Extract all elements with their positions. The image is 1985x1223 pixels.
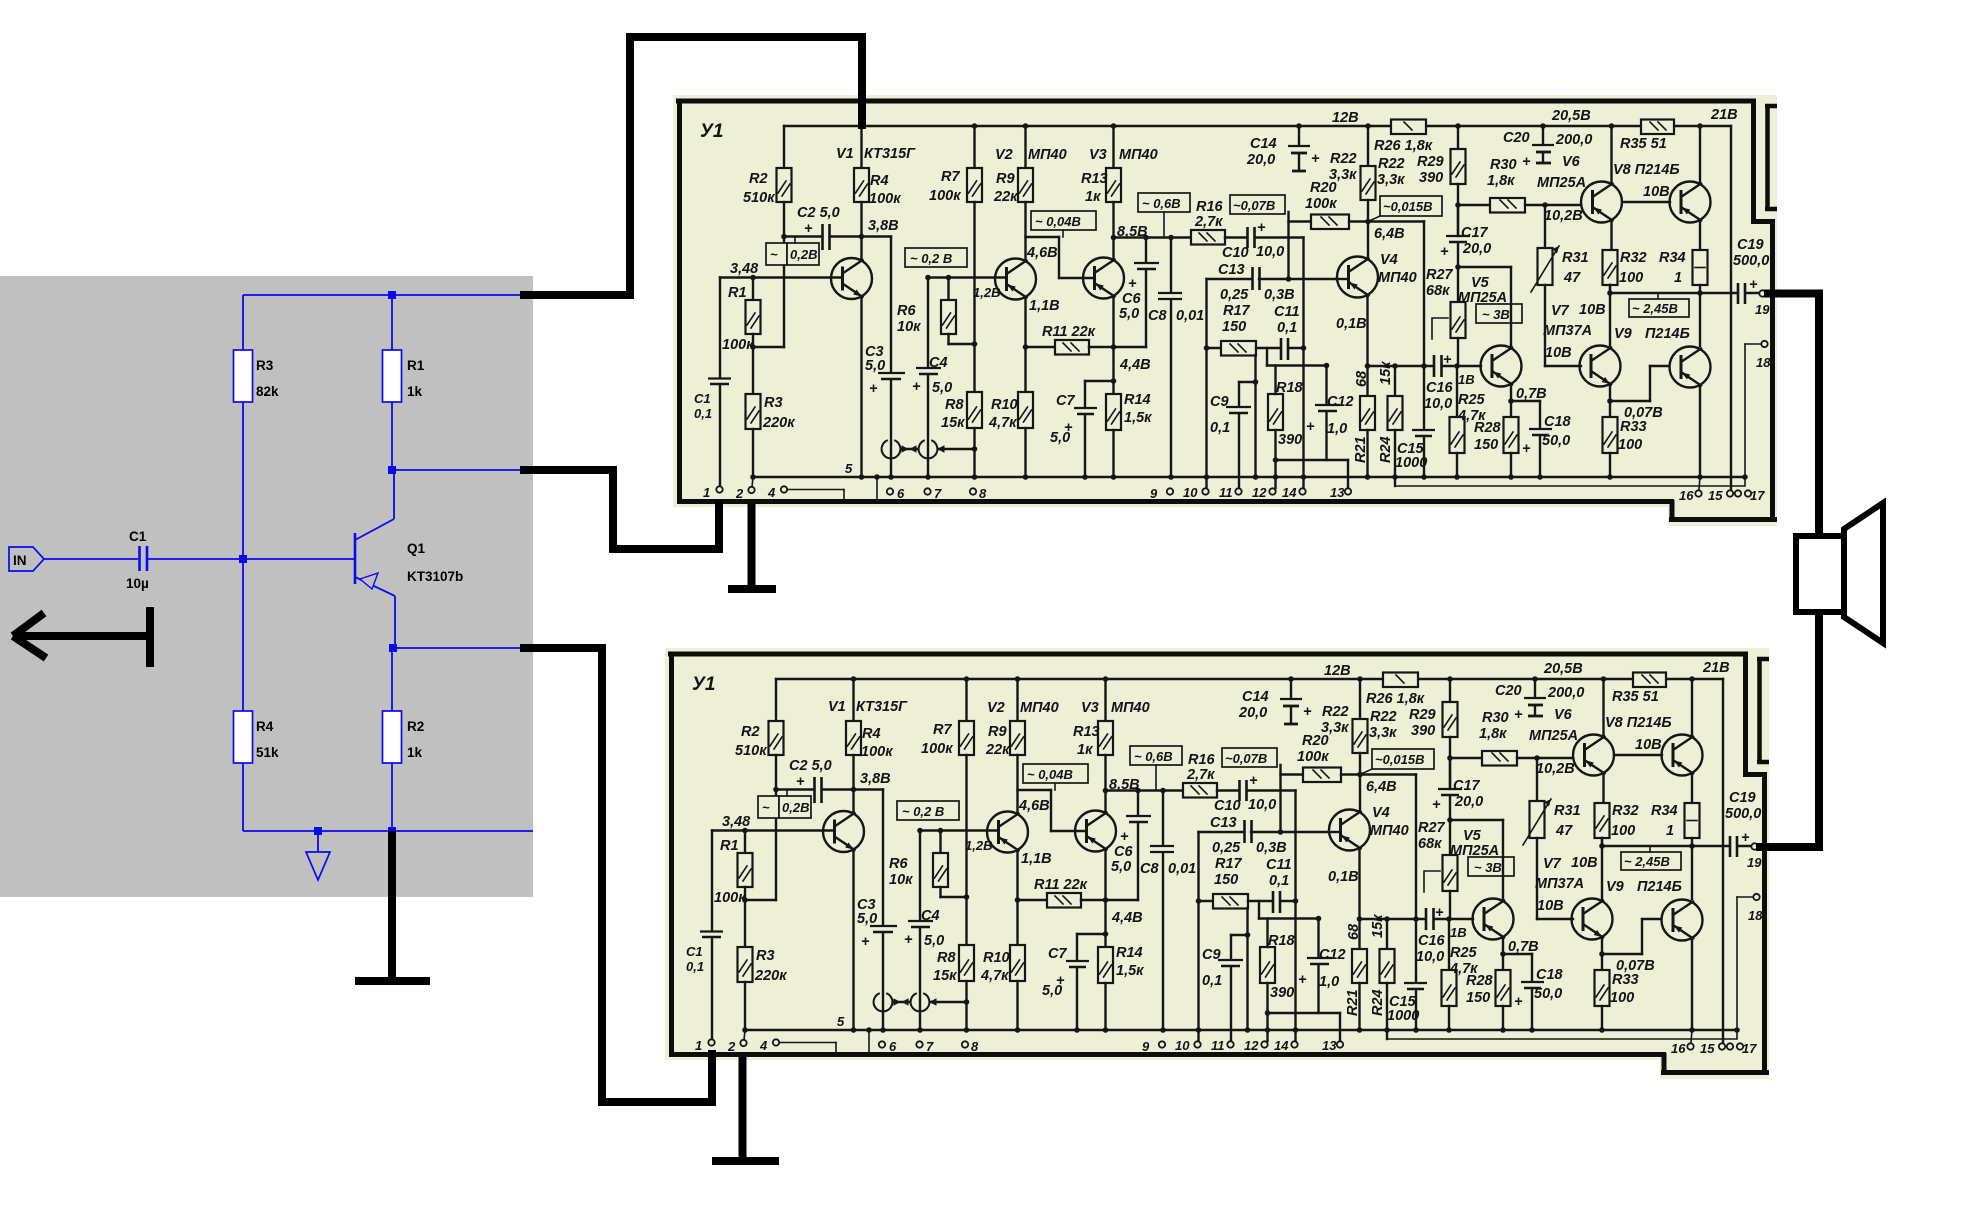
svg-text:V7: V7 [1551, 303, 1570, 319]
wire W2: collector row to top amp input pin 1 [520, 466, 723, 553]
node bottom rail right [388, 827, 396, 835]
svg-text:МП40: МП40 [1119, 147, 1158, 163]
svg-text:100к: 100к [722, 337, 754, 353]
svg-text:20,5В: 20,5В [1551, 108, 1591, 124]
capacitor C10 10,0 [1222, 220, 1304, 261]
svg-text:V8 П214Б: V8 П214Б [1613, 162, 1680, 178]
capacitor C9 0,1 [1210, 382, 1251, 488]
svg-text:6,4В: 6,4В [1374, 226, 1405, 242]
resistor R26 1,8k on rail [1374, 120, 1433, 155]
svg-text:0,1: 0,1 [694, 406, 712, 421]
svg-text:510к: 510к [743, 190, 775, 206]
svg-text:5,0: 5,0 [932, 380, 952, 396]
pin 19 [1755, 290, 1770, 317]
svg-text:0,1: 0,1 [1210, 420, 1230, 436]
svg-text:10В: 10В [1579, 302, 1606, 318]
capacitor C12 1,0 [1276, 366, 1354, 461]
transistor V1 KT315G [831, 146, 916, 480]
wire: input to C1 [44, 558, 138, 560]
input port IN [9, 547, 44, 571]
svg-text:22к: 22к [993, 189, 1018, 205]
capacitor C7 5,0 [1050, 381, 1114, 480]
svg-text:390: 390 [1419, 170, 1443, 186]
svg-text:4,7к: 4,7к [988, 415, 1017, 431]
svg-text:R6: R6 [897, 303, 916, 319]
svg-text:10: 10 [1183, 485, 1198, 500]
resistor R21 68 [1353, 366, 1375, 480]
svg-text:10,0: 10,0 [1424, 396, 1452, 412]
svg-text:R13: R13 [1081, 171, 1108, 187]
wire B: C13 row to V4 base [1207, 276, 1337, 282]
svg-text:+: + [1128, 276, 1137, 292]
amplifier module U1 (top channel) [673, 95, 1777, 526]
svg-text:100: 100 [1618, 437, 1642, 453]
svg-text:1,2В: 1,2В [973, 285, 1000, 300]
black annotation arrow [13, 607, 150, 667]
svg-text:100к: 100к [1305, 196, 1337, 212]
svg-text:3,3к: 3,3к [1329, 167, 1357, 183]
svg-text:C16: C16 [1426, 380, 1454, 396]
svg-text:R7: R7 [941, 169, 960, 185]
wire W1: left circuit top rail to top amp supply [520, 33, 866, 299]
svg-text:15к: 15к [941, 415, 965, 431]
resistor R3 82k [234, 295, 280, 559]
svg-text:16: 16 [1679, 488, 1694, 503]
svg-text:10µ: 10µ [126, 576, 149, 591]
svg-text:R4: R4 [256, 719, 274, 734]
svg-text:C13: C13 [1218, 262, 1245, 278]
voltage callout 0,2V at V1 base [766, 237, 819, 265]
svg-text:Q1: Q1 [407, 541, 426, 556]
svg-text:1: 1 [1674, 270, 1682, 286]
svg-text:V4: V4 [1380, 252, 1398, 268]
svg-text:МП25А: МП25А [1458, 290, 1507, 306]
svg-text:R14: R14 [1124, 392, 1151, 408]
pin 14 [1282, 485, 1306, 500]
svg-text:0,1: 0,1 [1277, 320, 1297, 336]
pin 8 [970, 486, 987, 501]
svg-text:2,7к: 2,7к [1194, 214, 1223, 230]
capacitor C16 10,0 [1424, 352, 1481, 412]
svg-text:3,8В: 3,8В [868, 218, 899, 234]
svg-text:V6: V6 [1562, 154, 1581, 170]
svg-text:10к: 10к [897, 319, 921, 335]
svg-text:6: 6 [897, 486, 905, 501]
svg-text:10,2В: 10,2В [1544, 208, 1583, 224]
svg-text:R29: R29 [1417, 154, 1444, 170]
svg-text:R30: R30 [1490, 157, 1517, 173]
svg-text:R2: R2 [749, 171, 768, 187]
transistor V5 MP25A [1458, 267, 1522, 417]
svg-text:C1: C1 [129, 529, 147, 544]
svg-text:R32: R32 [1620, 250, 1647, 266]
resistor R8 15k [941, 392, 982, 480]
svg-text:+: + [1443, 352, 1452, 368]
pin 11 [1219, 485, 1242, 500]
svg-text:12В: 12В [1332, 110, 1359, 126]
resistor R13 1k [1081, 123, 1121, 259]
svg-text:V9: V9 [1614, 326, 1632, 342]
svg-text:0,3В: 0,3В [1264, 287, 1295, 303]
svg-text:~ 3В: ~ 3В [1482, 307, 1510, 322]
svg-text:18: 18 [1756, 355, 1771, 370]
svg-text:0,25: 0,25 [1220, 287, 1249, 303]
svg-text:68к: 68к [1426, 283, 1450, 299]
svg-text:68: 68 [1354, 370, 1370, 387]
svg-text:R1: R1 [728, 285, 747, 301]
amplifier module U1 (bottom channel), duplicate of the top module [665, 648, 1769, 1079]
node at collector [388, 466, 396, 474]
svg-text:C2 5,0: C2 5,0 [797, 205, 840, 221]
loudspeaker symbol [1796, 503, 1883, 643]
svg-text:+: + [1311, 151, 1320, 167]
svg-text:C9: C9 [1210, 394, 1229, 410]
resistor R20 100k (horizontal) [1289, 180, 1425, 229]
capacitor C4 5,0 [912, 275, 952, 480]
feedback column to C15 [1423, 222, 1425, 367]
wire: base wire [148, 558, 355, 560]
svg-text:C18: C18 [1544, 414, 1572, 430]
voltage callout ~0,015V [1368, 196, 1442, 222]
V4 emitter row to C16 [1368, 363, 1434, 369]
svg-text:R4: R4 [870, 173, 889, 189]
module border outline [676, 99, 1777, 521]
svg-text:0,1В: 0,1В [1336, 316, 1367, 332]
svg-text:3,48: 3,48 [730, 261, 759, 277]
svg-text:~ 0,04В: ~ 0,04В [1035, 214, 1081, 229]
voltage callout ~0,2V at V2 base [905, 248, 967, 267]
column to pin 14 [1301, 238, 1307, 489]
capacitor C19 500,0 [1733, 237, 1769, 304]
pin 16 [1679, 477, 1702, 503]
resistor R3 220k [746, 347, 796, 480]
resistor R29 390 [1417, 123, 1466, 236]
svg-text:R35 51: R35 51 [1620, 136, 1667, 152]
resistor R1 100k [722, 275, 784, 353]
capacitor C14 20,0 [1246, 123, 1320, 171]
capacitor C11 0,1 [1274, 304, 1306, 360]
transistor V8 P214B [1613, 123, 1711, 250]
svg-text:C7: C7 [1056, 393, 1075, 409]
svg-text:500,0: 500,0 [1733, 253, 1769, 269]
resistor R32 100 [1603, 250, 1647, 293]
transistor Q1 KT3107b [355, 470, 463, 648]
svg-text:100к: 100к [929, 188, 961, 204]
svg-text:10В: 10В [1643, 184, 1670, 200]
capacitor C1 10u [126, 529, 149, 591]
svg-text:10,0: 10,0 [1256, 244, 1284, 260]
svg-text:5: 5 [845, 461, 853, 476]
svg-text:1k: 1k [407, 384, 423, 399]
transistor V9 P214B [1610, 293, 1711, 480]
svg-text:C11: C11 [1274, 304, 1300, 320]
resistor R14 1,5k [1106, 392, 1152, 480]
pin 13 [1330, 460, 1351, 500]
svg-text:4: 4 [767, 485, 776, 500]
resistor R1 1k [383, 295, 425, 470]
node 8,5V [1111, 224, 1148, 240]
wire B' row under C11 [1267, 348, 1329, 368]
svg-text:C20: C20 [1503, 130, 1530, 146]
svg-text:МП40: МП40 [1378, 270, 1417, 286]
capacitor C8 0,01 [1148, 238, 1204, 480]
capacitor C15 1000 [1395, 366, 1435, 480]
resistor R2 1k [383, 648, 425, 831]
svg-text:R22: R22 [1330, 151, 1357, 167]
pin 2 [735, 477, 755, 501]
svg-text:П214Б: П214Б [1645, 326, 1690, 342]
resistor R7 100k [929, 123, 982, 392]
svg-text:R18: R18 [1276, 380, 1304, 396]
capacitor C1 0,1 [694, 278, 731, 487]
svg-text:R16: R16 [1196, 199, 1224, 215]
svg-text:~0,015В: ~0,015В [1383, 199, 1433, 214]
transistor V6 MP25A [1537, 123, 1622, 250]
svg-text:7: 7 [934, 486, 942, 501]
svg-text:11: 11 [1219, 485, 1233, 500]
svg-text:+: + [1749, 277, 1758, 293]
svg-text:13: 13 [1330, 485, 1345, 500]
wire: bottom rail [243, 830, 533, 832]
svg-text:100: 100 [1619, 270, 1643, 286]
svg-text:R27: R27 [1426, 267, 1454, 283]
capacitor C17 20,0 [1440, 205, 1491, 270]
resistor R18 390 [1268, 366, 1304, 489]
voltage callout ~2,45V [1629, 293, 1689, 317]
capacitor C6 5,0 [1114, 235, 1160, 347]
link from wire A to wire B [1287, 212, 1289, 279]
pin 9 [1150, 486, 1173, 501]
svg-text:R22: R22 [1378, 156, 1405, 172]
variable resistor R31 47 [1531, 205, 1589, 366]
transistor V3 MP40 [1083, 147, 1158, 299]
resistor R11 22k (horizontal) [1026, 324, 1117, 355]
wire: emitter row [393, 647, 533, 649]
resistor R4 100k [854, 123, 901, 236]
svg-text:1k: 1k [407, 745, 423, 760]
svg-text:+: + [1522, 441, 1531, 457]
pin row wire 13-17 [1395, 485, 1744, 487]
svg-text:3,3к: 3,3к [1377, 172, 1405, 188]
svg-text:390: 390 [1278, 432, 1302, 448]
pin 4 and its trace [767, 485, 844, 501]
resistor R16 2,7k (horizontal) [1191, 199, 1247, 245]
svg-text:+: + [1306, 419, 1315, 435]
chassis stub near pin 6 [874, 474, 880, 501]
V3 emitter column, node 4,4V [1111, 298, 1151, 395]
svg-text:2: 2 [735, 486, 744, 501]
resistor R34 1 [1659, 250, 1708, 293]
svg-text:~ 0,2 В: ~ 0,2 В [910, 251, 952, 266]
svg-text:R26 1,8к: R26 1,8к [1374, 138, 1433, 154]
svg-text:12: 12 [1252, 485, 1267, 500]
svg-text:R3: R3 [764, 395, 783, 411]
svg-text:C6: C6 [1122, 291, 1141, 307]
node A wire (R2/C2/R1 junction) [781, 234, 821, 347]
svg-text:~0,07В: ~0,07В [1233, 198, 1275, 213]
voltage callout ~0,04V [1031, 211, 1096, 237]
node on top rail at R1 [388, 291, 396, 299]
resistor R6 10k [897, 275, 977, 347]
svg-text:1,1В: 1,1В [1029, 298, 1060, 314]
svg-text:5,0: 5,0 [865, 358, 885, 374]
svg-text:1: 1 [703, 485, 710, 500]
pin 6 [887, 486, 905, 501]
output wire to pin 19 [1607, 290, 1737, 296]
svg-text:20,0: 20,0 [1246, 152, 1275, 168]
svg-text:R9: R9 [996, 171, 1015, 187]
node bottom rail left [314, 827, 322, 835]
svg-text:~ 2,45В: ~ 2,45В [1632, 301, 1678, 316]
svg-text:IN: IN [13, 553, 27, 568]
resistor R25 4,7k [1450, 366, 1487, 480]
wire W3: top amp pin 2 to ground [728, 504, 776, 589]
svg-text:17: 17 [1750, 488, 1765, 503]
svg-text:C4: C4 [929, 355, 948, 371]
wire W4: emitter row to bottom amp input pin 1 [520, 644, 716, 1106]
svg-text:9: 9 [1150, 486, 1158, 501]
svg-text:0,01: 0,01 [1176, 308, 1204, 324]
blue ground symbol [306, 835, 330, 880]
capacitor C13 [1218, 262, 1260, 290]
svg-text:+: + [1440, 244, 1449, 260]
resistor R4 51k [234, 559, 280, 831]
svg-text:~: ~ [770, 247, 778, 262]
svg-text:R33: R33 [1620, 419, 1647, 435]
svg-text:1,0: 1,0 [1327, 421, 1347, 437]
vertical column to pin 10 [1204, 279, 1210, 488]
svg-text:У1: У1 [700, 121, 723, 142]
pin 17 pair [1735, 488, 1765, 503]
scanned module background [673, 95, 1777, 507]
svg-text:R25: R25 [1458, 392, 1486, 408]
svg-text:МП37А: МП37А [1543, 323, 1592, 339]
schematic editor gray panel [0, 276, 533, 897]
resistor R35 51 on rail [1620, 120, 1674, 153]
wire A: 8,5V node row with R16 and C10 [1114, 235, 1192, 241]
svg-text:5,0: 5,0 [1050, 430, 1070, 446]
svg-text:KT3107b: KT3107b [407, 569, 463, 584]
svg-text:C8: C8 [1148, 308, 1167, 324]
transistor V4 MP40 [1336, 252, 1417, 369]
svg-text:МП25А: МП25А [1537, 175, 1586, 191]
resistor R28 150 [1474, 417, 1519, 480]
resistor R22 3,3k [1329, 123, 1405, 257]
capacitor C18 50,0 [1511, 401, 1572, 480]
svg-text:51k: 51k [256, 745, 279, 760]
svg-text:R28: R28 [1474, 420, 1502, 436]
top supply rail 12V [784, 125, 1731, 127]
svg-text:15: 15 [1708, 488, 1723, 503]
voltage callout ~0,6V [1138, 193, 1190, 237]
svg-text:R3: R3 [256, 358, 274, 373]
voltage callout ~3V [1476, 304, 1522, 323]
svg-text:220к: 220к [762, 415, 795, 431]
svg-text:150: 150 [1474, 437, 1498, 453]
svg-text:+: + [1522, 154, 1531, 170]
svg-text:+: + [869, 381, 878, 397]
svg-text:100к: 100к [869, 191, 901, 207]
svg-text:15к: 15к [1378, 361, 1394, 385]
svg-text:R2: R2 [407, 719, 424, 734]
pin 10 [1183, 485, 1209, 500]
svg-text:C14: C14 [1250, 136, 1277, 152]
resistor R33 100 [1603, 417, 1647, 480]
svg-text:8: 8 [979, 486, 987, 501]
pin 1 [703, 485, 723, 500]
V2 collector to V3 base wire [1026, 237, 1094, 278]
svg-text:C12: C12 [1327, 394, 1354, 410]
node at emitter [389, 644, 397, 652]
svg-text:КТ315Г: КТ315Г [864, 146, 916, 162]
jumper contact pair symbols [882, 440, 978, 458]
svg-text:R17: R17 [1223, 303, 1251, 319]
svg-text:C19: C19 [1737, 237, 1764, 253]
voltage callout ~0,07V [1230, 195, 1285, 214]
resistor R27 68k [1426, 267, 1466, 366]
svg-text:14: 14 [1282, 485, 1297, 500]
svg-text:21В: 21В [1710, 107, 1738, 123]
resistor R24 15k [1378, 361, 1403, 486]
svg-text:47: 47 [1563, 270, 1581, 286]
svg-text:20,0: 20,0 [1462, 241, 1491, 257]
V2 emitter column and resistor R10 4,7k [988, 298, 1033, 480]
svg-text:1,8к: 1,8к [1487, 173, 1515, 189]
capacitor C20 200,0 [1503, 123, 1592, 170]
svg-text:1к: 1к [1085, 189, 1101, 205]
svg-text:19: 19 [1755, 302, 1770, 317]
svg-text:C17: C17 [1461, 225, 1489, 241]
svg-text:200,0: 200,0 [1555, 132, 1592, 148]
pin 18 and its wire [1742, 341, 1771, 486]
resistor R9 22k [993, 123, 1033, 260]
wire W5: bottom amp pin 2 to ground [712, 1057, 779, 1161]
svg-text:R11 22к: R11 22к [1042, 324, 1096, 340]
svg-text:R21: R21 [1353, 436, 1369, 463]
thick ground of left circuit [355, 831, 430, 981]
transistor V7 MP37A [1543, 285, 1621, 417]
svg-text:R8: R8 [945, 397, 964, 413]
R17 right drop to ground rail [1239, 355, 1258, 480]
pin 15 [1708, 488, 1733, 503]
node at base junction [239, 555, 247, 563]
wire: collector row [392, 469, 533, 471]
svg-text:+: + [1257, 220, 1266, 236]
supply column to pin 15 [1730, 126, 1732, 490]
capacitor C3 5,0 [862, 237, 906, 480]
svg-text:V5: V5 [1471, 275, 1490, 291]
V1 base wire [720, 276, 842, 278]
svg-text:4,6В: 4,6В [1026, 245, 1058, 261]
svg-text:~ 0,6В: ~ 0,6В [1142, 196, 1181, 211]
svg-text:R10: R10 [991, 397, 1018, 413]
pin 12 [1252, 485, 1276, 500]
svg-text:1В: 1В [1458, 372, 1475, 387]
svg-text:150: 150 [1222, 319, 1246, 335]
wire: top supply rail [243, 294, 533, 296]
svg-text:1000: 1000 [1395, 455, 1427, 471]
svg-text:10В: 10В [1545, 345, 1572, 361]
resistor R2 510k [743, 126, 792, 237]
capacitor C2 5,0 [797, 205, 862, 250]
svg-text:R34: R34 [1659, 250, 1686, 266]
svg-text:1,5к: 1,5к [1124, 410, 1152, 426]
svg-text:4,4В: 4,4В [1119, 357, 1151, 373]
resistor R30 1,8k (horizontal) [1458, 157, 1581, 213]
svg-text:C10: C10 [1222, 245, 1249, 261]
svg-text:C1: C1 [694, 391, 711, 406]
resistor R17 150 (horizontal) [1207, 303, 1281, 356]
